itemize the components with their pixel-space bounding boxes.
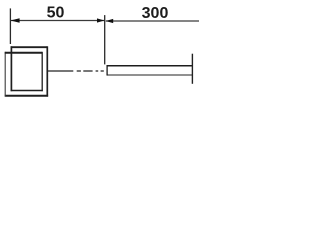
svg-text:50: 50: [47, 4, 65, 21]
svg-text:300: 300: [142, 5, 169, 22]
